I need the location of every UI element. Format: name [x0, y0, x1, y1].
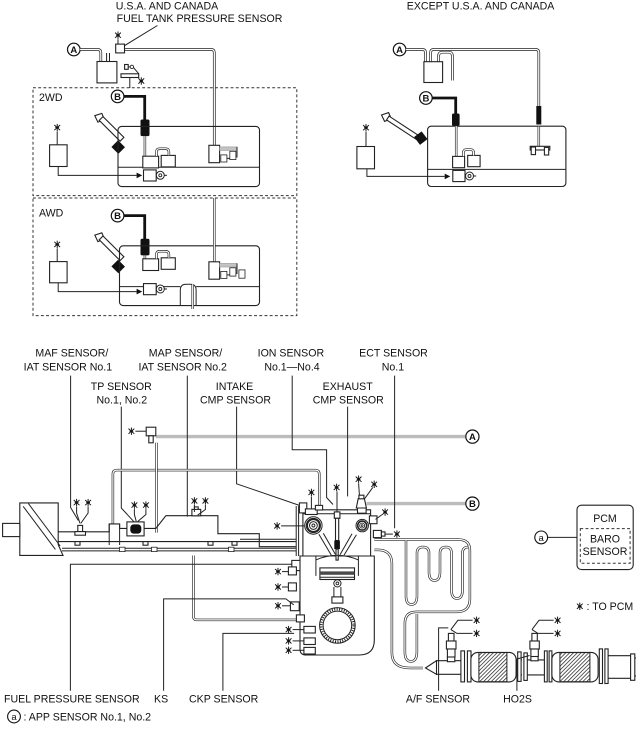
charcoal canister box — [97, 62, 117, 83]
svg-text:PCM: PCM — [593, 513, 617, 525]
jet pump AWD — [144, 284, 157, 295]
AWD dashed box — [33, 198, 297, 316]
thick filler vent black segment — [536, 106, 541, 125]
injector fitting upper — [288, 567, 296, 575]
wire star to sensor — [117, 39, 119, 44]
intake cam sensor fitting — [305, 509, 317, 515]
catalytic converter 1 — [471, 652, 516, 682]
pipe sensor to canister — [106, 53, 108, 62]
legend star TO PCM — [577, 603, 583, 610]
svg-text:EXHAUST: EXHAUST — [323, 381, 374, 393]
frame double line under manifold — [62, 547, 296, 549]
stars MAP — [192, 497, 198, 504]
arrow canister to jet pump 2WD — [58, 167, 136, 176]
black block B right — [452, 114, 460, 127]
star right of drain — [138, 77, 144, 84]
pipe elbow to pump AWD — [144, 256, 147, 259]
svg-text:B: B — [422, 94, 429, 105]
fuel pump unit boxes AWD — [143, 259, 159, 271]
star above canister 2WD — [54, 124, 60, 131]
purge hose to manifold — [155, 443, 158, 533]
leader MAF — [71, 376, 79, 521]
leader TP — [121, 407, 134, 522]
HO2S sensor body — [532, 633, 537, 641]
head side fitting with star — [369, 516, 377, 524]
block front fitting — [296, 615, 304, 622]
filler neck black block AWD — [111, 260, 125, 274]
flange 4 — [599, 649, 602, 684]
stars HO2S — [555, 617, 561, 624]
svg-text:IAT SENSOR No.2: IAT SENSOR No.2 — [138, 361, 227, 373]
fuel tank pressure sensor box — [116, 44, 125, 53]
exhaust front pipe — [436, 660, 461, 662]
HO2S boss — [531, 656, 538, 661]
thick hose from B right — [432, 98, 455, 114]
purge solenoid valve — [146, 427, 156, 436]
filler tube right — [387, 116, 419, 139]
saddle tunnel AWD — [180, 284, 196, 305]
valve lines — [319, 534, 332, 555]
leader KS — [164, 599, 294, 691]
star above canister right — [363, 124, 369, 131]
mid pipe — [516, 659, 522, 661]
svg-text:2WD: 2WD — [39, 92, 63, 104]
EVAP hose to head — [113, 470, 319, 524]
sender tee right — [530, 146, 550, 150]
svg-text:INTAKE: INTAKE — [216, 381, 253, 393]
svg-text:TP SENSOR: TP SENSOR — [91, 381, 152, 393]
stars A/F — [474, 617, 480, 624]
serpentine weaving loops — [406, 540, 469, 604]
stars MAF — [74, 499, 80, 506]
catalytic converter 2 — [552, 652, 598, 682]
filler tube 2WD — [99, 117, 124, 142]
leader HO2S — [517, 656, 530, 691]
2WD dashed box — [33, 88, 297, 196]
filler neck black block right — [414, 131, 427, 144]
drain filter cap — [121, 74, 139, 78]
node A circle top-left — [68, 43, 81, 56]
flange 2 — [518, 652, 521, 682]
leader EXHAUST CMP — [347, 407, 349, 497]
EVAP canister small box right — [357, 147, 375, 169]
filler neck black block 2WD — [111, 140, 125, 154]
svg-text:B: B — [469, 499, 476, 510]
KS knock sensor — [290, 602, 299, 611]
pipe sensor to 2WD tank sender — [124, 50, 214, 146]
pigtail hose right of canister — [439, 52, 453, 80]
svg-text:IAT SENSOR No.1: IAT SENSOR No.1 — [24, 361, 113, 373]
timing cover edge — [295, 506, 297, 556]
exhaust inlet cone — [426, 661, 437, 675]
fuel tank right — [428, 126, 566, 186]
svg-text:a: a — [11, 712, 17, 723]
sender unit 2WD — [209, 145, 220, 162]
valve cover line — [300, 555, 374, 557]
fuel pump unit boxes 2WD — [143, 156, 159, 168]
flange 3 — [544, 651, 547, 682]
sender unit AWD — [209, 262, 220, 279]
svg-text:A: A — [396, 45, 403, 56]
fuel tank 2WD — [118, 126, 260, 186]
note circle a — [8, 710, 21, 723]
svg-text:FUEL TANK PRESSURE SENSOR: FUEL TANK PRESSURE SENSOR — [117, 13, 283, 25]
leader ECT — [394, 376, 396, 529]
svg-text:a: a — [539, 533, 545, 544]
node B circle AWD — [111, 209, 124, 222]
leader to fuel tank pressure sensor — [125, 26, 157, 46]
svg-text:SENSOR: SENSOR — [583, 546, 628, 558]
engine block outline — [300, 510, 374, 655]
svg-text:ION SENSOR: ION SENSOR — [258, 348, 325, 360]
rear fuel pipe below tank AWD — [191, 284, 194, 309]
star intake CMP — [309, 489, 315, 496]
star above pressure sensor — [115, 32, 121, 39]
filler trumpet right — [382, 113, 392, 122]
leader ION — [292, 376, 333, 505]
filler trumpet 2WD — [95, 113, 105, 122]
black elbow block AWD — [141, 239, 150, 256]
filler trumpet AWD — [95, 233, 105, 242]
svg-text:BARO: BARO — [590, 534, 620, 546]
serpentine pipe to exhaust line — [374, 550, 423, 668]
vent pipe canister to tank right — [431, 50, 539, 109]
svg-text:U.S.A. AND CANADA: U.S.A. AND CANADA — [116, 1, 219, 13]
pipe B block to pump right — [455, 126, 458, 156]
jet pump 2WD — [144, 170, 157, 181]
arrow canister to jet pump right — [367, 169, 445, 177]
svg-text:FUEL PRESSURE SENSOR: FUEL PRESSURE SENSOR — [4, 693, 140, 705]
node B circle mid — [466, 497, 479, 510]
flange 1 — [461, 651, 465, 682]
exhaust cam pulley — [356, 519, 368, 531]
MAP sensor fitting — [194, 507, 198, 510]
star above canister AWD — [54, 241, 60, 248]
star ECT — [394, 530, 400, 537]
star left of purge valve — [129, 428, 135, 435]
jet pump right — [453, 170, 465, 181]
fuel tank AWD — [120, 246, 260, 306]
svg-text:A/F SENSOR: A/F SENSOR — [406, 693, 471, 705]
tailpipe — [608, 655, 631, 657]
leader CKP SENSOR — [223, 633, 294, 690]
svg-text:: TO PCM: : TO PCM — [587, 601, 634, 613]
svg-text:No.1: No.1 — [382, 361, 404, 373]
exhaust serpentine pipe main — [374, 540, 470, 662]
intake duct and manifold profile — [58, 516, 296, 547]
arrow canister to jet pump AWD — [58, 283, 136, 292]
charcoal canister box right — [424, 62, 443, 83]
leader A/F SENSOR — [439, 628, 449, 691]
ECT sensor fitting — [373, 530, 381, 537]
pipe elbow to pump 2WD — [144, 136, 147, 156]
thick hose from B — [124, 96, 145, 120]
black elbow block 2WD — [141, 120, 150, 137]
vent solenoid valve — [125, 65, 129, 70]
stars TP — [132, 501, 138, 508]
svg-text:HO2S: HO2S — [503, 693, 532, 705]
svg-text:B: B — [114, 211, 121, 222]
hose port on head — [315, 505, 322, 510]
pipe A to canister right — [406, 50, 426, 62]
wire a to PCM — [548, 536, 577, 538]
crank flywheel ring gear — [320, 608, 356, 644]
CKP sensor boxes — [304, 626, 315, 633]
svg-text:CMP SENSOR: CMP SENSOR — [313, 394, 384, 406]
svg-text:MAF SENSOR/: MAF SENSOR/ — [35, 348, 108, 360]
svg-text:A: A — [70, 45, 77, 56]
star intake cam pulley pointer — [274, 522, 280, 529]
MAF sensor fitting — [78, 525, 83, 531]
pipe with HO2S — [527, 659, 544, 661]
svg-text:CKP SENSOR: CKP SENSOR — [189, 693, 259, 705]
TP sensor on throttle body — [127, 522, 144, 536]
sender feed pipe inside tank right — [538, 127, 541, 147]
intake cam pulley (CMP) — [305, 517, 322, 534]
BARO SENSOR dashed box — [580, 529, 630, 564]
node B circle 2WD — [111, 90, 124, 103]
stars exhaust CMP — [356, 476, 362, 483]
leader INTAKE CMP — [237, 407, 306, 508]
pump jumper pipe AWD — [156, 251, 169, 258]
svg-text:EXCEPT U.S.A. AND CANADA: EXCEPT U.S.A. AND CANADA — [407, 1, 556, 13]
mounting tabs — [75, 542, 80, 546]
svg-text:No.1—No.4: No.1—No.4 — [264, 361, 319, 373]
air cleaner box — [20, 503, 63, 556]
svg-text:ECT SENSOR: ECT SENSOR — [359, 348, 428, 360]
svg-text:B: B — [114, 92, 121, 103]
sender feed pipe AWD — [213, 198, 216, 262]
svg-text:MAP SENSOR/: MAP SENSOR/ — [149, 348, 222, 360]
piston — [320, 568, 355, 580]
cam cap head top-left — [299, 503, 306, 513]
injector fitting lower — [288, 583, 296, 591]
connecting rod — [333, 587, 335, 598]
fuel feed pipe — [193, 556, 296, 620]
A/F sensor boss — [447, 657, 454, 662]
A/F sensor body — [448, 633, 454, 641]
svg-text:No.1, No.2: No.1, No.2 — [96, 394, 147, 406]
gray line to node B — [367, 502, 466, 505]
svg-text:KS: KS — [154, 693, 168, 705]
svg-text:AWD: AWD — [39, 208, 64, 220]
leader FUEL PRESSURE SENSOR — [70, 564, 291, 691]
star ION — [334, 484, 340, 491]
leader MAP — [186, 376, 188, 517]
pump jumper pipe right — [463, 150, 473, 157]
svg-text:: APP SENSOR No.1, No.2: : APP SENSOR No.1, No.2 — [24, 711, 152, 723]
node A circle mid — [466, 430, 479, 443]
exhaust cam sensor fitting — [358, 508, 367, 514]
thick hose from B AWD — [124, 216, 145, 240]
fuel pump unit boxes right — [453, 156, 465, 167]
EVAP canister small box 2WD — [50, 145, 68, 167]
node a circle — [535, 531, 548, 544]
filler tube AWD — [99, 236, 124, 261]
fuel pressure sensor box — [292, 560, 306, 570]
node A circle right — [393, 43, 406, 56]
gray line to node A — [156, 435, 465, 438]
svg-text:A: A — [469, 432, 476, 443]
pump jumper pipe 2WD — [156, 149, 169, 156]
PCM box — [577, 505, 633, 569]
air inlet snorkel — [3, 523, 20, 536]
svg-text:CMP SENSOR: CMP SENSOR — [200, 394, 271, 406]
pipe A to canister — [80, 50, 101, 62]
node B circle right — [420, 92, 433, 105]
combustion chamber — [316, 555, 359, 560]
ion sensor spark plug — [334, 512, 340, 518]
EVAP canister small box AWD — [50, 262, 68, 283]
